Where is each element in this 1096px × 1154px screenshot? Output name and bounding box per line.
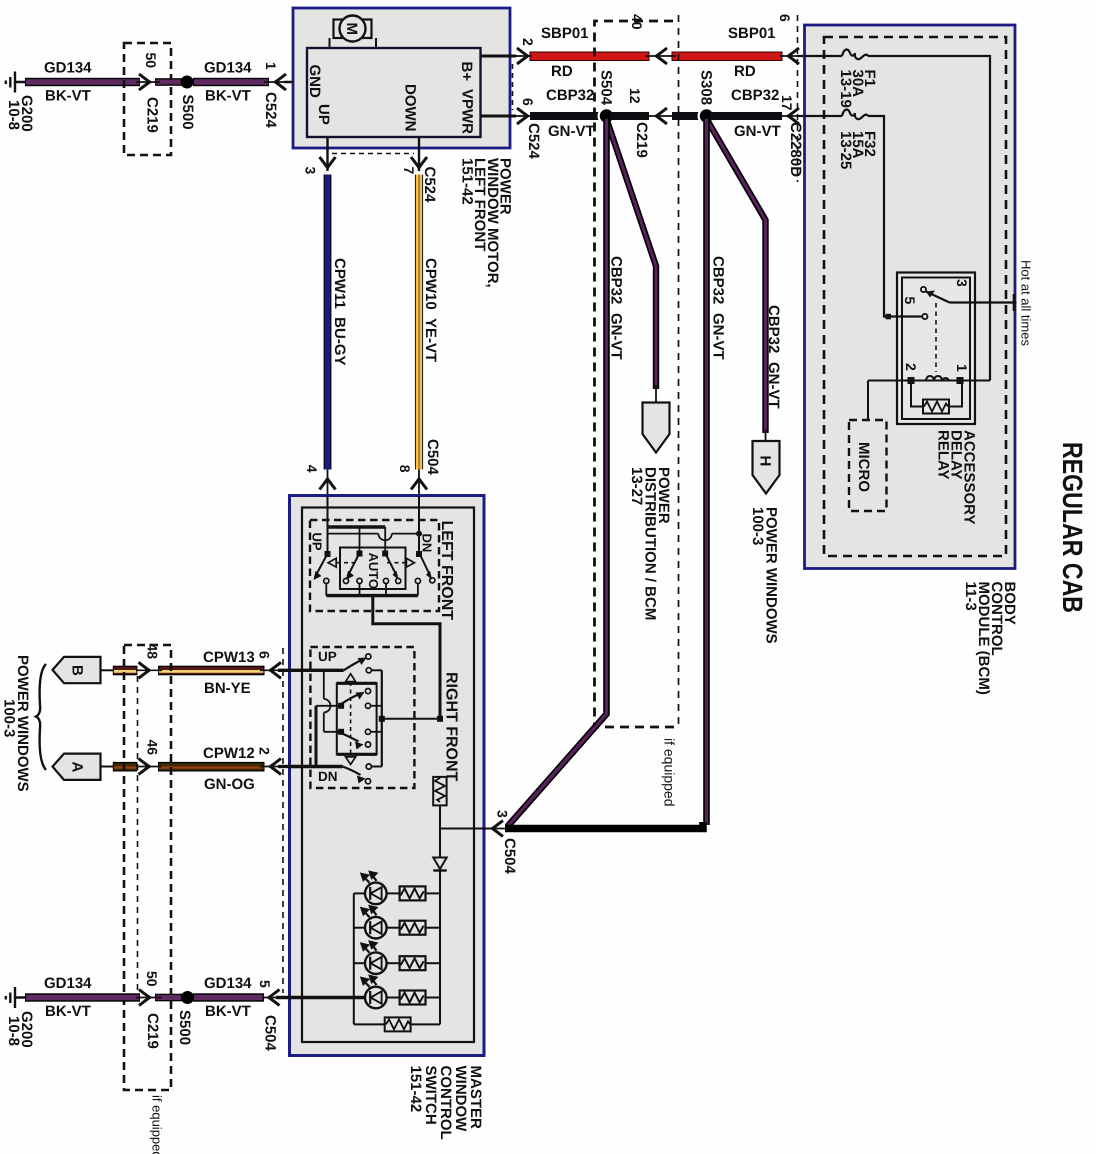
wire CPW12 inside (DN feed): [288, 765, 343, 768]
UP pivot pad: [325, 551, 331, 557]
svg-text:C524: C524: [525, 123, 542, 160]
wire CPW11 BU-GY (blue): [324, 175, 332, 470]
svg-text:GN-VT: GN-VT: [765, 362, 782, 409]
bus resistor (vertical): [433, 777, 446, 806]
splice S500 (bottom): [181, 991, 194, 1004]
SECTION: red and black feed rows: [530, 14, 843, 182]
wire GD134 BK-VT (S500 to C504): [193, 993, 264, 1001]
svg-text:50: 50: [144, 971, 160, 987]
svg-text:GN-VT: GN-VT: [548, 123, 595, 140]
contact stubs to bus: [326, 584, 418, 596]
svg-text:6: 6: [777, 14, 793, 22]
wire x316 vertical: [315, 706, 318, 767]
svg-text:CPW10 YE-VT: CPW10 YE-VT: [422, 258, 439, 362]
svg-text:10-8: 10-8: [5, 100, 22, 130]
svg-text:M: M: [343, 23, 360, 36]
auto contact 1: [343, 578, 348, 583]
UP arm (right front): [344, 660, 363, 671]
pin 4 arrow (up): [320, 479, 336, 490]
rf upper row contact: [365, 703, 370, 708]
auto arm 1 arrowhead: [346, 571, 354, 580]
wire CPW13 BN-YE: [158, 666, 265, 676]
inner rf box: [337, 683, 377, 754]
ground G200 (bottom left): [6, 987, 26, 1008]
wire GD134 BK-VT (S500 to C524): [193, 78, 269, 86]
junction pad at bus: [437, 716, 443, 722]
wire SBP01 RD (motor to C219): [530, 52, 649, 61]
wire DOWN pin 7 down: [418, 137, 420, 171]
DN arm arrowhead: [357, 776, 366, 784]
wire lower contact to right leg: [371, 731, 382, 733]
wire CBP32 S504 branch diagonal to distribution: [607, 119, 657, 389]
SECTION: power window motor box: [293, 8, 542, 496]
wire CBP32 (C219 to S308): [672, 112, 703, 120]
svg-text:C219: C219: [144, 97, 161, 133]
svg-text:RD: RD: [734, 63, 756, 80]
relay resistor: [923, 400, 949, 414]
svg-text:GD134: GD134: [44, 60, 92, 77]
wire left front output: [373, 596, 440, 719]
SECTION: BCM box: [805, 25, 1089, 695]
wire into switch box (A row): [278, 765, 290, 768]
svg-text:RD: RD: [551, 63, 573, 80]
wire diode to led bus: [439, 871, 441, 1025]
svg-text:BK-VT: BK-VT: [205, 88, 251, 105]
RIGHT FRONT dashed box: [310, 647, 414, 788]
mech dashed vertical: [350, 682, 352, 756]
wire into switch box (B row): [278, 669, 290, 672]
svg-text:DN: DN: [318, 769, 338, 784]
wire F1 feed: [805, 55, 843, 57]
auto contact 2: [396, 578, 401, 583]
wire UP contact to right leg: [371, 669, 381, 671]
svg-text:GD134: GD134: [44, 975, 92, 992]
svg-text:GN-OG: GN-OG: [204, 776, 255, 793]
junction square on pin5 wire: [886, 314, 892, 320]
wire upper contact to right leg: [371, 705, 382, 707]
wire into motor GND pin: [284, 81, 308, 84]
svg-text:C524: C524: [421, 167, 438, 204]
rf upper pivot pad: [338, 703, 344, 709]
svg-text:S308: S308: [698, 70, 715, 105]
LED 1: [354, 872, 440, 904]
svg-text:1: 1: [954, 364, 970, 372]
mech dashed left: [337, 562, 355, 564]
svg-text:BK-VT: BK-VT: [45, 88, 91, 105]
wire black row into BCM: [797, 115, 843, 117]
svg-text:BK-VT: BK-VT: [45, 1003, 91, 1020]
svg-text:CBP32: CBP32: [731, 87, 779, 104]
wire into switch box (ground row): [276, 996, 365, 999]
svg-text:A: A: [69, 762, 86, 773]
SECTION: master window control switch: [288, 496, 518, 1140]
right leg vertical: [381, 670, 383, 766]
wire pin4 into switch box: [327, 470, 329, 497]
wire A to C219: [101, 766, 114, 768]
UP switch arm: [315, 556, 327, 578]
wire F1 to relay pin 1: [868, 56, 990, 381]
LED 3: [354, 942, 440, 974]
wire B+ pin 2 out: [481, 55, 517, 58]
UP contact circle: [324, 578, 329, 583]
svg-text:if equipped: if equipped: [662, 738, 678, 807]
left branch vertical with hop: [324, 670, 331, 732]
svg-text:UP: UP: [318, 649, 337, 664]
svg-text:SBP01: SBP01: [728, 25, 776, 42]
svg-text:LEFT FRONT: LEFT FRONT: [438, 521, 455, 621]
UP arm arrowhead: [358, 658, 367, 666]
UP tip contact: [366, 654, 371, 659]
wire Hot at all times: [950, 301, 1017, 303]
wire coil to MICRO: [867, 381, 869, 421]
accessory delay relay outer box: [897, 273, 975, 425]
DN arm (right front): [343, 767, 361, 776]
svg-text:50: 50: [143, 53, 159, 69]
C219 pin link dashed: [137, 676, 139, 991]
svg-text:C504: C504: [262, 1015, 279, 1052]
DN tip contact: [365, 779, 370, 784]
svg-text:5: 5: [257, 980, 273, 988]
fuse F32: [842, 110, 868, 120]
bottom resistor leads: [354, 1023, 440, 1025]
fuse F1: [842, 50, 868, 60]
svg-text:Hot at all times: Hot at all times: [1019, 260, 1034, 346]
LED 4: [354, 976, 440, 1008]
svg-text:C219: C219: [633, 122, 650, 158]
DN tip contact circle: [430, 578, 435, 583]
pin 2 arrow (switch): [270, 759, 281, 775]
pin 46 arrow: [139, 759, 150, 775]
svg-text:GD134: GD134: [204, 975, 252, 992]
connector C219 dashed line (middle): [678, 15, 680, 727]
splice S504: [598, 107, 616, 125]
C219 arrow (black row): [656, 108, 667, 124]
rf lower pivot pad: [338, 729, 344, 735]
connector C524 dashed pin link (right side): [512, 64, 514, 110]
auto pad 2: [382, 551, 388, 557]
svg-text:GN-VT: GN-VT: [734, 123, 781, 140]
relay pin 5 contact: [922, 314, 927, 319]
if equipped dashed box (middle): [595, 21, 677, 727]
svg-text:1: 1: [263, 62, 279, 70]
svg-text:7: 7: [401, 167, 417, 175]
wire DN contact to right leg: [371, 766, 381, 768]
wire CBP32 S308 branch diagonal to H: [707, 119, 766, 433]
svg-text:GN-VT: GN-VT: [608, 313, 625, 360]
wire CPW12 short segment: [113, 762, 138, 772]
svg-text:MICRO: MICRO: [855, 442, 872, 492]
relay coil: [926, 376, 949, 381]
svg-text:5: 5: [902, 297, 918, 305]
auto feed verticals: [360, 527, 386, 551]
wire SBP01 RD (C219 to C2280D): [672, 52, 782, 61]
rf lower arm: [341, 733, 358, 742]
wire CBP32 S308 vertical down: [703, 119, 710, 825]
wire CPW12 GN-OG: [158, 762, 265, 772]
motor inner control box: [307, 48, 481, 137]
wire CPW13 inside (UP feed): [288, 669, 344, 672]
svg-text:SBP01: SBP01: [541, 25, 589, 42]
svg-text:UP: UP: [315, 104, 332, 125]
actuation triangle left: [328, 558, 336, 567]
svg-text:2: 2: [903, 363, 919, 371]
wire UP leg (pin 4): [327, 496, 329, 554]
svg-text:17: 17: [779, 95, 795, 111]
pin 50 arrow (bottom): [139, 990, 150, 1006]
wire GD134 BK-VT (ground to C219): [25, 78, 140, 86]
DN pivot pad: [416, 551, 422, 557]
diode: [433, 858, 446, 870]
relay switch arm: [926, 292, 950, 303]
auto arm 2 arrowhead: [393, 571, 399, 580]
relay actuator dashed link: [935, 303, 937, 372]
relay switch common contact: [921, 287, 926, 292]
wire CBP32 (S504 to C219 arrow): [610, 112, 649, 120]
wire segment C219 to S500 (bottom): [155, 994, 182, 1002]
MICRO dashed box: [849, 420, 887, 511]
LED 2: [354, 906, 440, 938]
auto pad 1: [357, 551, 363, 557]
brace: [36, 664, 46, 770]
svg-text:C504: C504: [501, 838, 518, 875]
svg-text:2: 2: [257, 747, 273, 755]
connector A: [53, 754, 101, 780]
tick at box edge: [1013, 294, 1016, 311]
svg-text:H: H: [757, 456, 774, 467]
svg-text:AUTO: AUTO: [366, 553, 381, 590]
DN arm arrowhead: [426, 571, 432, 580]
bottom resistor: [385, 1017, 411, 1031]
rf upper arm arrowhead: [356, 692, 365, 700]
svg-text:6: 6: [520, 98, 536, 106]
wire stub to distribution arrow: [655, 385, 657, 404]
svg-text:CBP32: CBP32: [765, 305, 782, 353]
connector C219 dashed box (top): [124, 43, 171, 155]
svg-text:GND: GND: [306, 65, 323, 99]
svg-text:BK-VT: BK-VT: [205, 1003, 251, 1020]
rf inner top edge thick: [337, 682, 377, 685]
svg-text:RIGHT FRONT: RIGHT FRONT: [443, 672, 460, 782]
connector arrow POWER DISTRIBUTION / BCM: [643, 403, 670, 453]
body control module outer box: [805, 25, 1016, 569]
C2280D arrow (red row): [788, 48, 799, 64]
pin 50 arrow into C219: [139, 74, 150, 90]
motor M symbol: [330, 16, 377, 49]
wire left branch to lower pivot: [324, 731, 340, 733]
svg-text:B: B: [69, 665, 86, 676]
svg-text:S500: S500: [176, 1010, 193, 1045]
auto contact 4 (bus): [383, 578, 388, 583]
mech dashed right: [387, 562, 406, 564]
power window motor outer box: [293, 8, 510, 148]
svg-text:if equipped: if equipped: [150, 1095, 165, 1154]
pin 5 arrow: [269, 990, 280, 1006]
rf lower arm arrowhead: [355, 742, 364, 750]
svg-text:BN-YE: BN-YE: [204, 680, 251, 697]
wire switch output to bus: [382, 718, 440, 720]
wire resistor to junction: [439, 805, 441, 828]
wire B to C219: [101, 669, 114, 671]
svg-text:CPW11 BU-GY: CPW11 BU-GY: [331, 258, 348, 366]
DN row contact: [366, 764, 371, 769]
svg-text:S500: S500: [179, 95, 196, 130]
svg-text:C219: C219: [144, 1013, 161, 1049]
connector B: [53, 657, 101, 683]
C219 arrow (red row): [656, 48, 667, 64]
ground G200 (top left): [6, 72, 26, 93]
C2280D arrow (black row): [788, 108, 799, 124]
connector arrow H: [753, 441, 780, 494]
junction dot on DN leg: [416, 531, 422, 537]
wire pin5 contact to F32 leg: [897, 315, 922, 317]
wire junction to C504 pin 3: [440, 828, 492, 830]
pin 7 arrow (down): [411, 157, 427, 168]
wire UP pin 3 down: [326, 137, 328, 171]
left front bus: [326, 594, 418, 597]
switch inner box: [302, 508, 474, 1043]
UP arm arrowhead: [314, 571, 322, 580]
mech triangle down: [346, 757, 356, 765]
svg-text:3: 3: [303, 167, 319, 175]
DN switch arm: [421, 556, 431, 577]
wire segment C219 to S500: [155, 78, 182, 86]
BCM inner dashed box: [824, 37, 1006, 556]
svg-text:GN-VT: GN-VT: [710, 313, 727, 360]
svg-text:UP: UP: [310, 533, 325, 551]
pin 8 arrow (up): [411, 479, 427, 490]
relay pin 2 pad: [908, 377, 915, 384]
svg-text:46: 46: [145, 740, 161, 756]
svg-text:CPW12: CPW12: [203, 745, 255, 762]
relay pin 1 pad: [957, 377, 964, 384]
svg-text:VPWR: VPWR: [459, 89, 476, 134]
svg-text:3: 3: [954, 279, 970, 287]
rf upper tip contact: [365, 689, 370, 694]
svg-text:CPW13: CPW13: [203, 649, 255, 666]
svg-text:6: 6: [257, 651, 273, 659]
connector C524 dashed pin link (bottom): [332, 153, 414, 155]
svg-text:C504: C504: [424, 439, 441, 476]
connector C2280D dashed line: [797, 15, 799, 182]
svg-text:CBP32: CBP32: [546, 87, 594, 104]
svg-text:C2280D: C2280D: [787, 122, 804, 177]
pin 48 arrow: [139, 662, 150, 678]
auto contact 3 (bus): [357, 578, 362, 583]
svg-text:4: 4: [304, 465, 320, 473]
C504 pin 3 arrow: [492, 821, 503, 837]
svg-text:10-8: 10-8: [5, 1016, 22, 1046]
UP row contact: [366, 668, 371, 673]
pin 6 arrow: [517, 108, 528, 124]
wire thick black to C504 pin 3: [505, 822, 703, 829]
accessory delay relay inner box: [902, 278, 970, 420]
rf lower row contact: [365, 729, 370, 734]
svg-text:3: 3: [495, 810, 511, 818]
splice S500: [181, 76, 194, 89]
thick link UP to auto: [328, 525, 386, 528]
svg-text:12: 12: [627, 88, 643, 104]
pin 1 arrow at C524: [275, 74, 286, 90]
connector C219 dashed box (bottom): [124, 645, 171, 1090]
wire CBP32 GN-VT (motor to S504): [530, 112, 603, 120]
C504 pin link dashed: [282, 648, 284, 993]
wire CPW13 short segment: [113, 666, 138, 676]
svg-text:REGULAR CAB: REGULAR CAB: [1057, 442, 1088, 613]
SECTION: B/A connectors + bottom ground run: [1, 644, 366, 1154]
wire DN leg (pin 8): [418, 496, 420, 554]
rf upper arm: [341, 694, 359, 704]
relay resistor leads: [911, 384, 962, 407]
wire junction down to diode: [439, 829, 441, 858]
crossover wire with hop: [328, 534, 420, 541]
actuation triangle right: [406, 558, 414, 567]
wire VPWR pin 6 out: [481, 115, 517, 118]
wire GD134 BK-VT (bottom left): [25, 993, 140, 1001]
svg-text:C524: C524: [262, 92, 279, 129]
rf lower tip contact: [365, 742, 370, 747]
SECTION: top-left ground run: [5, 43, 308, 155]
wire y705.8 horizontal: [316, 705, 340, 707]
svg-text:8: 8: [397, 465, 413, 473]
wire F32 feed: [805, 115, 843, 117]
AUTO box: [340, 548, 406, 590]
svg-text:DN: DN: [420, 534, 435, 553]
splice S308: [698, 107, 716, 125]
svg-text:CBP32: CBP32: [608, 256, 625, 304]
svg-text:GD134: GD134: [204, 60, 252, 77]
auto arm 1: [348, 555, 359, 577]
LEFT FRONT dashed box: [310, 520, 439, 611]
pin 2 arrow: [517, 48, 528, 64]
wire pin8 into switch box: [418, 470, 420, 497]
rf inner bottom edge thick: [337, 753, 377, 756]
svg-text:CBP32: CBP32: [710, 256, 727, 304]
junction pad mid right leg: [379, 716, 385, 722]
auto arm 2: [386, 555, 397, 577]
wire CPW10 YE-VT (yellow): [415, 175, 423, 470]
pin 6 arrow (switch): [270, 662, 281, 678]
mech triangle up: [346, 674, 356, 682]
relay coil wire: [868, 380, 990, 382]
svg-text:DOWN: DOWN: [402, 84, 419, 132]
wire CBP32 S504 vertical down: [508, 119, 607, 827]
master window control switch outer box: [290, 496, 485, 1056]
connector break thin wires: [136, 56, 800, 998]
wire CBP32 (S308 to C2280D): [710, 112, 782, 120]
SECTION: if-equipped dashed region + S504/S308 branches: [505, 15, 782, 829]
pin 3 arrow (down): [320, 157, 336, 168]
wire stub to H arrow: [765, 429, 767, 443]
wire red row into BCM: [797, 55, 843, 57]
svg-text:2: 2: [520, 38, 536, 46]
wire F32 to relay pin 5: [868, 116, 921, 317]
svg-text:S504: S504: [598, 70, 615, 106]
relay arm arrowhead: [926, 291, 935, 298]
svg-text:B+: B+: [458, 62, 475, 82]
DN contact circle: [415, 578, 420, 583]
led left bus: [353, 893, 355, 1024]
